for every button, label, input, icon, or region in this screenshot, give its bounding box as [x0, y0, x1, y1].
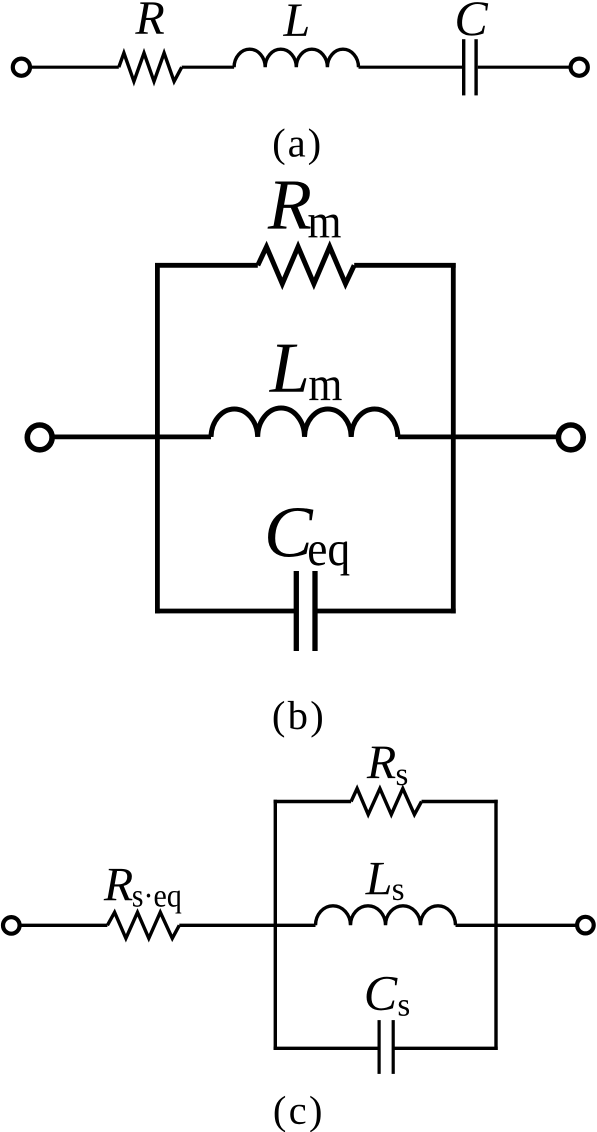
- inductor L: [234, 49, 358, 67]
- resistor Rs-eq: [107, 912, 179, 938]
- label Rs-eq subscript s·eq: [133, 891, 181, 914]
- terminal left (b): [27, 425, 52, 450]
- box top edge left segment (b): [155, 263, 258, 268]
- wire L to C: [359, 66, 463, 69]
- label Ceq main: [268, 508, 313, 557]
- box bottom edge right segment (c): [393, 1047, 498, 1050]
- box top edge right segment (c): [422, 800, 498, 803]
- caption (c): [275, 1096, 321, 1132]
- terminal right (a): [571, 59, 588, 76]
- label Rs main: [367, 747, 396, 778]
- label Rm subscript m: [308, 215, 340, 238]
- wire Rs-eq to box (c): [179, 924, 315, 927]
- label Cs subscript s: [399, 1000, 409, 1016]
- capacitor C plate left: [462, 39, 465, 95]
- capacitor Ceq plate left: [294, 571, 299, 651]
- label R: [135, 2, 164, 33]
- resistor Rs: [351, 789, 421, 815]
- label Rs-eq main: [104, 869, 133, 900]
- wire left (a): [31, 66, 119, 69]
- box bottom edge left segment (b): [155, 609, 296, 614]
- terminal left (c): [3, 917, 20, 934]
- label Rm main: [268, 181, 311, 228]
- box right edge (c): [494, 800, 497, 1050]
- box bottom edge right segment (b): [315, 609, 456, 614]
- box top edge right segment (b): [354, 263, 456, 268]
- terminal right (b): [558, 425, 583, 450]
- label Cs main: [367, 977, 398, 1011]
- resistor Rm: [258, 247, 354, 284]
- label Ls main: [365, 863, 390, 894]
- box left edge (c): [274, 800, 277, 1050]
- box top edge left segment (c): [274, 800, 352, 803]
- resistor R: [119, 53, 182, 81]
- terminal left (a): [13, 59, 30, 76]
- label Ls subscript s: [393, 884, 403, 900]
- box bottom edge left segment (c): [274, 1047, 380, 1050]
- inductor Ls: [316, 906, 456, 926]
- label C: [457, 2, 488, 36]
- wire left (c): [21, 924, 107, 927]
- box left edge (b): [155, 263, 160, 613]
- inductor Lm: [211, 408, 398, 437]
- label Lm main: [269, 345, 306, 392]
- caption (a): [274, 128, 319, 165]
- terminal right (c): [577, 917, 594, 934]
- wire R to L: [182, 66, 234, 69]
- middle wire left (b): [54, 434, 211, 439]
- label Rs subscript s: [397, 769, 407, 785]
- capacitor Ceq plate right: [312, 571, 317, 651]
- caption (b): [274, 701, 322, 738]
- middle wire right (b): [398, 434, 557, 439]
- label Lm subscript m: [309, 377, 341, 400]
- label Ceq subscript eq: [309, 542, 349, 576]
- label L: [283, 4, 308, 35]
- middle wire right (c): [456, 924, 577, 927]
- box right edge (b): [451, 263, 456, 613]
- wire right (a): [478, 66, 570, 69]
- capacitor Cs plate left: [378, 1020, 381, 1074]
- capacitor C plate right: [474, 39, 477, 95]
- capacitor Cs plate right: [392, 1020, 395, 1074]
